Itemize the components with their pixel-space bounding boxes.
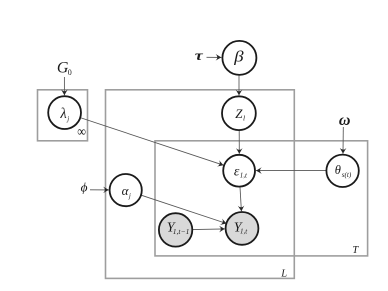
- svg-text:0: 0: [68, 68, 72, 77]
- wire Z_l to epsilon: [238, 131, 240, 154]
- wire omega to theta: [342, 127, 344, 154]
- svg-text:1,t: 1,t: [240, 172, 248, 180]
- node Z_l: [222, 96, 256, 130]
- node Y_1,t-1 (observed, shaded): [159, 213, 192, 246]
- svg-text:∞: ∞: [77, 123, 86, 139]
- wire G0 to lambda_j: [63, 77, 65, 95]
- svg-text:1,t: 1,t: [240, 227, 248, 235]
- svg-text:β: β: [233, 47, 244, 65]
- wire lambda_j to epsilon (diagonal): [80, 118, 223, 166]
- svg-text:j: j: [128, 192, 131, 200]
- wire epsilon to Y_1t: [240, 187, 241, 211]
- wire Y_1t-1 to Y_1t: [192, 228, 224, 231]
- plate T: [155, 141, 368, 256]
- svg-text:τ: τ: [195, 49, 204, 64]
- node theta_s(t): [326, 155, 358, 187]
- svg-text:1,t−1: 1,t−1: [173, 227, 190, 236]
- svg-text:s(t): s(t): [342, 171, 352, 179]
- svg-text:L: L: [280, 268, 287, 279]
- node alpha_j: [110, 174, 142, 206]
- svg-text:ω: ω: [339, 112, 351, 129]
- node beta: [222, 41, 256, 75]
- wire alpha_j to Y_1t (diagonal): [141, 195, 226, 223]
- node lambda_j: [48, 96, 81, 129]
- wire theta to epsilon: [256, 170, 326, 172]
- wire phi to alpha_j: [90, 189, 109, 191]
- svg-text:l: l: [243, 114, 245, 123]
- plate L: [106, 90, 295, 279]
- svg-text:λ: λ: [59, 106, 66, 122]
- svg-text:θ: θ: [335, 163, 341, 177]
- wire beta to Z_l: [238, 76, 240, 96]
- node epsilon_1t: [223, 155, 255, 187]
- node Y_1,t (observed, shaded): [226, 212, 259, 245]
- plate infinity (around lambda_j): [38, 90, 88, 141]
- wire tau to beta: [207, 56, 222, 58]
- svg-text:ϕ: ϕ: [81, 181, 88, 195]
- svg-text:j: j: [66, 115, 69, 123]
